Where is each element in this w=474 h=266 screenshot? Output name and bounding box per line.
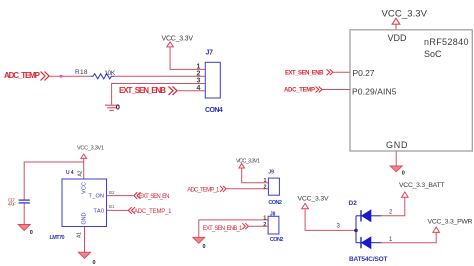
connector J8 [263, 211, 283, 243]
capacitor C17 [8, 198, 30, 208]
svg-text:2: 2 [197, 71, 201, 78]
svg-text:B1: B1 [109, 204, 115, 209]
wire VCC_3.3V1 to LMT70 VCC pin [83, 159, 85, 179]
svg-text:P0.29/AIN5: P0.29/AIN5 [352, 86, 397, 96]
svg-text:U4: U4 [66, 170, 74, 176]
svg-text:R18: R18 [75, 69, 88, 76]
svg-text:47uF: 47uF [8, 202, 16, 208]
wire tee to C17 [24, 162, 83, 200]
svg-text:CON2: CON2 [270, 237, 284, 243]
pin name VDD [388, 33, 408, 43]
label R18 [75, 69, 88, 76]
pin name P0.29/AIN5 [352, 86, 397, 96]
svg-text:0: 0 [402, 171, 405, 177]
svg-text:VDD: VDD [388, 33, 408, 43]
wire ADC_TEMP to P0.29/AIN5 [322, 89, 350, 91]
junction dot on ADC_TEMP wire [60, 75, 63, 78]
part name BAT54C/SOT [349, 256, 388, 263]
svg-text:0: 0 [30, 230, 33, 236]
wire GND pin down [395, 151, 397, 166]
svg-text:2: 2 [264, 185, 267, 191]
svg-text:1: 1 [264, 178, 267, 184]
part name SoC [424, 49, 442, 59]
svg-text:VCC_3.3V: VCC_3.3V [162, 36, 194, 43]
svg-text:B2: B2 [109, 190, 115, 195]
svg-text:A1: A1 [77, 232, 83, 238]
connector J9 [264, 169, 282, 205]
svg-text:J7: J7 [206, 49, 214, 56]
power flag VCC_3.3V1 (above LMT70) [77, 146, 104, 159]
pin number 1 [389, 237, 393, 243]
part name LMT70 [50, 235, 65, 241]
pin name T_ON [89, 194, 105, 200]
pin number B1 [109, 204, 115, 209]
pin name P0.27 [353, 68, 375, 78]
svg-text:VCC_3.3V: VCC_3.3V [298, 195, 329, 202]
refdes U4 [66, 170, 74, 176]
svg-text:J9: J9 [268, 169, 274, 175]
svg-text:VCC_3.3V1: VCC_3.3V1 [77, 146, 104, 152]
wire VCC_3.3V to J7 pin 1 [170, 47, 205, 69]
power flag VCC_3.3V (above nRF52840) [382, 9, 428, 25]
diode D2 common rail [355, 216, 357, 243]
node ADC_TEMP_1 label (LMT70) [128, 207, 172, 215]
diode D2 top (anode pin 2) [356, 210, 382, 221]
svg-text:VCC_3.3V: VCC_3.3V [382, 9, 428, 20]
node ADC_TEMP off-page label [4, 71, 49, 81]
svg-text:ADC_TEMP_1: ADC_TEMP_1 [134, 209, 172, 215]
power flag VCC_3.3V1 (above J9) [236, 158, 260, 168]
wire T_ON to EXT_SEN_EN label [107, 195, 134, 197]
power ground symbol below LMT70 [78, 252, 95, 266]
svg-text:VCC: VCC [82, 182, 88, 194]
pin name VCC (rotated) [82, 182, 88, 194]
node ADC_TEMP_1 label (J9) [187, 186, 226, 194]
svg-text:GND: GND [82, 212, 88, 224]
part name nRF52840 [424, 37, 469, 47]
pin number 3 [337, 224, 341, 230]
node EXT_SEN_ENB label (nRF) [285, 69, 333, 76]
junction dot D2 common [354, 229, 358, 233]
wire ADC_TEMP_1 to J9 pin 2 [226, 188, 268, 190]
power ground symbol below C17 [18, 225, 33, 237]
wire D2 pin 2 to VCC_3.3_BATT [382, 198, 405, 216]
wire D2 pin 1 to VCC_3.3_PWR [382, 233, 437, 243]
svg-text:nRF52840: nRF52840 [424, 37, 469, 47]
node EXT_SEN_ENB label (J7) [119, 86, 177, 95]
svg-text:CON2: CON2 [268, 200, 282, 206]
power flag VCC_3.3V (above J7) [162, 36, 194, 47]
power ground symbol below nRF [390, 166, 405, 177]
svg-text:GND: GND [386, 140, 408, 150]
svg-text:EXT_SEN_ENB: EXT_SEN_ENB [285, 70, 324, 76]
svg-text:LMT70: LMT70 [50, 235, 65, 241]
svg-text:T_ON: T_ON [89, 194, 105, 200]
IC U4 LMT70 box [62, 179, 107, 227]
svg-text:D2: D2 [349, 200, 358, 207]
svg-text:10K: 10K [104, 70, 116, 77]
svg-text:BAT54C/SOT: BAT54C/SOT [349, 256, 388, 263]
pin name GND [386, 140, 408, 150]
pin number B2 [109, 190, 115, 195]
svg-text:EXT_SEN_ENB: EXT_SEN_ENB [119, 86, 166, 95]
svg-text:EXT_SEN_ENB_1: EXT_SEN_ENB_1 [203, 226, 243, 232]
wire EXT_SEN_ENB to P0.27 [334, 71, 351, 73]
wire J8 pin 1 to ground [199, 220, 268, 237]
wire J7 pin 3 to ground [112, 84, 205, 105]
pin name TA0 [94, 209, 105, 215]
refdes D2 [349, 200, 358, 207]
pin number A2 (VCC pin) [78, 170, 84, 176]
ground symbol (earth) at J7 pin 3 [105, 102, 120, 111]
svg-text:0: 0 [116, 102, 120, 111]
power flag VCC_3.3V (diode input) [298, 195, 329, 209]
svg-text:VCC_3.3V1: VCC_3.3V1 [236, 158, 260, 164]
wire VCC_3.3V1 to J9 pin 1 [242, 168, 269, 182]
svg-text:3: 3 [197, 78, 201, 85]
svg-text:ADC_TEMP: ADC_TEMP [4, 71, 41, 80]
svg-text:2: 2 [263, 222, 266, 228]
svg-text:SoC: SoC [424, 49, 442, 59]
svg-text:A2: A2 [78, 170, 84, 176]
svg-text:0: 0 [203, 244, 206, 250]
svg-text:1: 1 [263, 216, 266, 222]
pin number 2 [389, 209, 393, 215]
wire LMT70 GND to ground [84, 227, 86, 253]
wire VCC_3.3V to D2 common (pin 3) [305, 209, 356, 230]
svg-text:1: 1 [197, 64, 201, 71]
svg-text:P0.27: P0.27 [353, 68, 375, 78]
wire TA0 to ADC_TEMP_1 label [107, 209, 129, 211]
wire R18 to J7 pin 2 [115, 75, 205, 77]
power flag VCC_3.3_PWR [428, 218, 473, 232]
svg-text:4: 4 [197, 85, 201, 92]
wire ADC_TEMP to R18 [49, 75, 91, 77]
IC U nRF52840 SoC box [350, 30, 472, 151]
svg-text:ADC_TEMP_1: ADC_TEMP_1 [187, 187, 220, 193]
node EXT_SEN_ENB_1 label (J8) [203, 223, 249, 232]
wire EXT_SEN_ENB to J7 pin 4 [177, 90, 205, 92]
resistor R18 [91, 74, 115, 79]
connector J7 [197, 49, 223, 114]
svg-text:EXT_SEN_EN: EXT_SEN_EN [139, 194, 170, 200]
pin number A1 (GND pin) [77, 232, 83, 238]
power ground symbol below J8 [193, 237, 206, 250]
svg-text:CON4: CON4 [205, 107, 223, 114]
wire EXT_SEN_ENB_1 to J8 pin 2 [248, 225, 268, 227]
wire VCC_3.3V to VDD pin [395, 25, 397, 30]
diode D2 bottom (anode pin 1) [356, 237, 382, 248]
node ADC_TEMP label (nRF) [284, 87, 322, 94]
value 10K [104, 70, 116, 77]
svg-text:TA0: TA0 [94, 209, 105, 215]
svg-text:VCC_3.3_PWR: VCC_3.3_PWR [428, 218, 473, 225]
svg-text:VCC_3.3_BATT: VCC_3.3_BATT [399, 182, 445, 189]
svg-text:0: 0 [93, 260, 96, 266]
wire C17 to ground [23, 203, 25, 224]
pin name GND (rotated) [82, 212, 88, 224]
node EXT_SEN_EN label [134, 192, 170, 200]
power flag VCC_3.3_BATT [399, 182, 445, 197]
svg-text:ADC_TEMP: ADC_TEMP [284, 87, 315, 93]
